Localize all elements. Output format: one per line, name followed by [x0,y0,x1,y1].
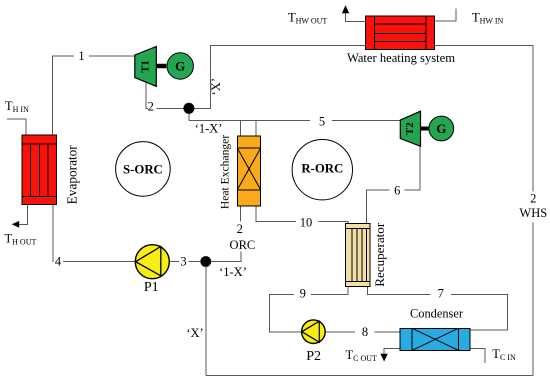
svg-text:Water heating system: Water heating system [347,51,455,65]
svg-text:G: G [436,122,446,136]
svg-text:WHS: WHS [519,206,547,220]
svg-text:‘1-X’: ‘1-X’ [219,265,247,279]
svg-text:‘X’: ‘X’ [209,78,223,95]
svg-text:S-ORC: S-ORC [123,163,163,177]
svg-text:R-ORC: R-ORC [301,162,343,176]
svg-text:Recuperator: Recuperator [372,222,387,287]
svg-text:Evaporator: Evaporator [65,145,80,205]
svg-text:G: G [175,59,185,74]
svg-text:2: 2 [530,192,536,206]
svg-text:Heat Exchanger: Heat Exchanger [219,135,232,209]
svg-text:5: 5 [319,114,325,128]
svg-text:4: 4 [55,255,62,269]
svg-text:‘X’: ‘X’ [186,326,203,340]
svg-text:T2: T2 [404,122,416,135]
svg-text:Condenser: Condenser [410,307,464,321]
svg-text:P1: P1 [144,280,159,295]
svg-text:‘1-X’: ‘1-X’ [195,122,223,136]
svg-text:8: 8 [362,325,368,339]
svg-text:3: 3 [180,255,186,269]
svg-text:T1: T1 [140,60,152,73]
svg-text:7: 7 [438,286,444,300]
svg-text:6: 6 [394,184,400,198]
svg-text:10: 10 [300,215,313,229]
svg-text:9: 9 [300,286,306,300]
svg-text:2: 2 [148,100,154,114]
svg-text:1: 1 [78,49,84,63]
svg-text:2: 2 [237,222,243,236]
svg-text:P2: P2 [306,349,321,364]
svg-text:ORC: ORC [230,238,256,252]
